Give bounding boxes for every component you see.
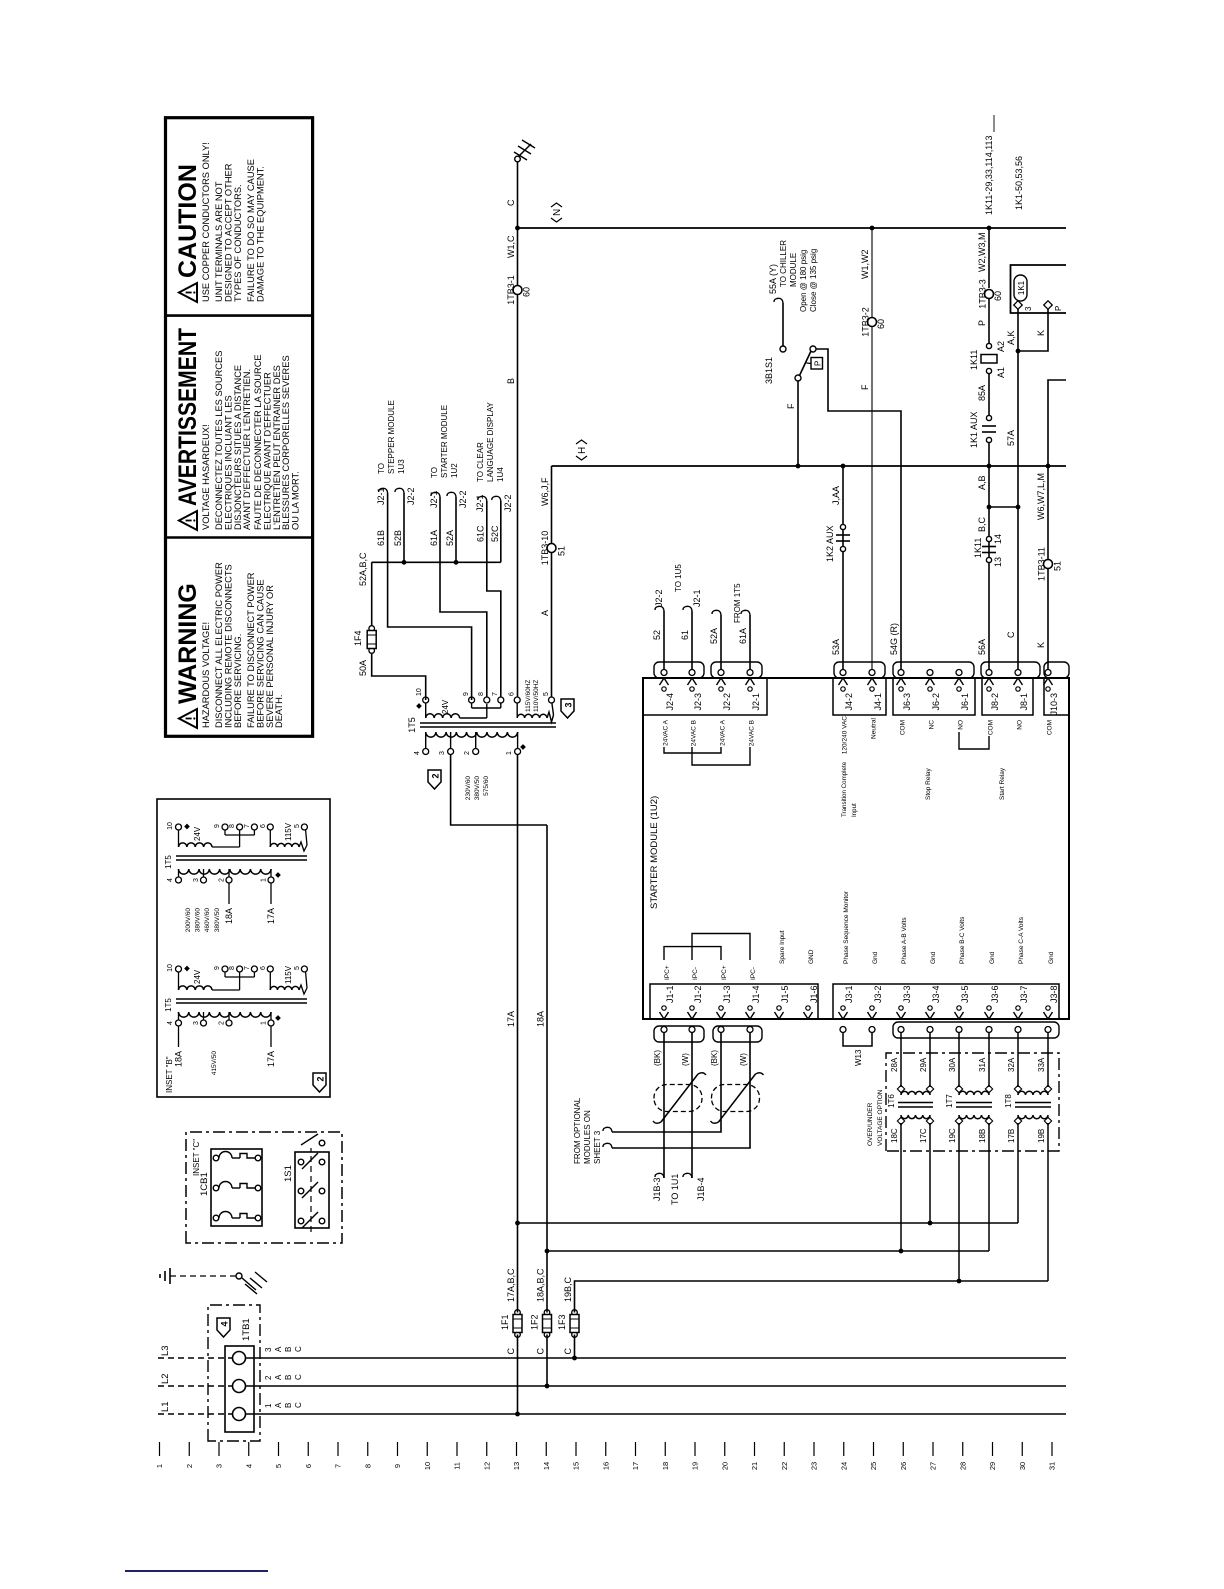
- junction A,K: [1016, 349, 1021, 354]
- svg-text:28: 28: [958, 1462, 967, 1470]
- svg-text:17A: 17A: [506, 1011, 516, 1027]
- label J2-1 dest: [692, 589, 702, 607]
- svg-text:FROM OPTIONAL: FROM OPTIONAL: [573, 1097, 582, 1164]
- wire 18A riser to terminal 3: [451, 755, 547, 826]
- svg-text:52A,B,C: 52A,B,C: [358, 552, 368, 586]
- transformer 1T7: [945, 1085, 993, 1124]
- label J2-2 for 52C: [503, 494, 513, 512]
- svg-text:52: 52: [652, 630, 662, 640]
- svg-text:J1-5: J1-5: [780, 985, 790, 1003]
- svg-text:FROM 1T5: FROM 1T5: [733, 583, 742, 623]
- label TO CHILLER MODULE: [779, 240, 798, 287]
- svg-text:P: P: [1054, 306, 1063, 311]
- 1T5 inset-50hz primary winding / terminals 4 3 2 1: [176, 1012, 275, 1026]
- hook 52B: [395, 488, 404, 493]
- wire 17B: [1007, 1123, 1018, 1223]
- junction 52A: [454, 560, 459, 565]
- svg-text:C: C: [506, 1348, 516, 1355]
- label L3: [160, 1345, 171, 1356]
- label 1K1 AUX: [969, 411, 979, 448]
- svg-text:Phase Sequence Monitor: Phase Sequence Monitor: [843, 890, 850, 964]
- svg-text:1K11: 1K11: [973, 538, 983, 558]
- chiller pin 3: [1014, 301, 1033, 311]
- label (W) 1: [681, 1053, 690, 1066]
- label C after 1F1: [506, 1348, 516, 1355]
- svg-text:IPC-: IPC-: [750, 967, 757, 980]
- svg-text:24VAC A: 24VAC A: [720, 719, 727, 746]
- svg-text:5: 5: [543, 692, 550, 696]
- svg-text:Open @ 180 psig: Open @ 180 psig: [799, 250, 808, 312]
- 1T5 inset-60hz 115V secondary winding / terminals 6 5: [267, 824, 307, 851]
- flag 2 inset B: [313, 1073, 326, 1092]
- terminal block 1TB1 enclosure dash-dot: [208, 1305, 260, 1441]
- connector block J6: [893, 678, 975, 715]
- junction 18C: [899, 1249, 904, 1254]
- connector pin J3-3: [897, 985, 913, 1032]
- svg-text:(BK): (BK): [653, 1050, 662, 1066]
- switch 1S1 pole 2: [298, 1182, 325, 1198]
- svg-text:J,AA: J,AA: [831, 486, 841, 505]
- destination TO STEPPER MODULE 1U3: [377, 400, 406, 474]
- svg-text:COM: COM: [900, 720, 907, 735]
- wire 52 net from terminal 10: [372, 562, 501, 700]
- svg-text:VOLTAGE HASARDEUX!: VOLTAGE HASARDEUX!: [201, 424, 211, 530]
- svg-text:1T8: 1T8: [1004, 1094, 1013, 1108]
- svg-text:J1B-3: J1B-3: [652, 1177, 662, 1201]
- flag 3: [561, 699, 574, 718]
- svg-text:13: 13: [993, 557, 1003, 567]
- svg-text:5: 5: [294, 824, 301, 828]
- wire 55A to chiller module: [782, 303, 784, 346]
- svg-text:1T5: 1T5: [407, 717, 417, 733]
- svg-text:1K11-29,33,114,113: 1K11-29,33,114,113: [984, 135, 994, 215]
- label FROM OPTIONAL MODULES ON SHEET 3: [573, 1097, 602, 1164]
- svg-text:51: 51: [557, 546, 567, 556]
- connector pin J3-2: [868, 985, 884, 1032]
- relay 1K1 reference bubble: [1014, 275, 1027, 301]
- earth ground symbol: [160, 1268, 170, 1284]
- svg-text:1: 1: [264, 1403, 273, 1408]
- transformer 1T8: [1004, 1085, 1052, 1124]
- svg-text:Phase B-C Volts: Phase B-C Volts: [959, 916, 966, 964]
- svg-text:K: K: [1036, 642, 1046, 648]
- label IPC- (J1-2): [692, 967, 699, 980]
- label F on neutral: [860, 384, 870, 390]
- svg-text:F: F: [786, 403, 796, 409]
- svg-text:120/240 VAC: 120/240 VAC: [842, 716, 849, 754]
- svg-text:STARTER MODULE: STARTER MODULE: [440, 405, 449, 478]
- svg-text:J4-2: J4-2: [844, 693, 854, 711]
- breaker 1CB1 pole 2: [213, 1182, 261, 1191]
- svg-text:24V: 24V: [193, 826, 202, 841]
- svg-text:AVERTISSEMENT: AVERTISSEMENT: [174, 328, 202, 506]
- svg-text:J1B-4: J1B-4: [696, 1177, 706, 1201]
- svg-text:TO: TO: [377, 463, 386, 474]
- label W1,C: [506, 235, 516, 258]
- wire 61A to terminal 8: [440, 497, 487, 697]
- inset wire 18A inset-50hz: [174, 1026, 184, 1067]
- label 52B: [393, 530, 403, 546]
- svg-text:1T6: 1T6: [887, 1094, 896, 1108]
- svg-text:MODULES ON: MODULES ON: [583, 1110, 592, 1164]
- label 85A: [977, 385, 987, 401]
- svg-text:WARNING: WARNING: [174, 583, 202, 704]
- hook from optional module 1: [603, 1127, 612, 1132]
- label INSET C: [192, 1139, 201, 1176]
- pressure switch 3B1S1: [780, 346, 823, 381]
- bus 2 A B C (L2): [246, 1385, 1067, 1387]
- chiller pin P: [1044, 301, 1063, 311]
- wire 18B: [978, 1123, 989, 1251]
- connector pin J2-4: [660, 670, 676, 711]
- transformer 1T5 core: [420, 723, 556, 727]
- wire B/C from terminal 6 to chassis ground: [517, 162, 519, 697]
- svg-text:(W): (W): [681, 1053, 690, 1066]
- svg-text:1K1 AUX: 1K1 AUX: [969, 411, 979, 448]
- svg-text:8: 8: [478, 692, 485, 696]
- hook from optional module 2: [603, 1143, 612, 1148]
- svg-text:Gnd: Gnd: [872, 951, 879, 964]
- current transformer CT1: [653, 1073, 706, 1124]
- svg-text:J2-1: J2-1: [751, 693, 761, 711]
- svg-text:3: 3: [564, 702, 574, 707]
- breaker 1CB1 pole 3: [213, 1212, 261, 1221]
- svg-text:1K1-50,53,56: 1K1-50,53,56: [1014, 156, 1024, 210]
- jumper W13 J3-1 to J3-2: [843, 1033, 872, 1047]
- wire 61 J2-3 to 1U5: [691, 611, 693, 670]
- connector shell J2-4/J2-3: [654, 662, 704, 678]
- svg-text:C: C: [294, 1402, 303, 1408]
- label 52A at J2-2: [709, 628, 719, 644]
- blue revision mark: [125, 1570, 268, 1572]
- svg-text:Phase C-A Volts: Phase C-A Volts: [1018, 916, 1025, 964]
- label Spare Input: [779, 930, 786, 964]
- connector block J8: [982, 678, 1033, 715]
- svg-text:J3-5: J3-5: [960, 985, 970, 1003]
- svg-text:J2-2: J2-2: [654, 589, 664, 607]
- svg-text:7: 7: [244, 824, 251, 828]
- wire 17A fuse to transformer terminal 1: [517, 755, 519, 1313]
- svg-text:115V/60HZ: 115V/60HZ: [525, 680, 532, 712]
- svg-text:6: 6: [260, 824, 267, 828]
- label A,K: [1006, 330, 1016, 345]
- 1T5 inset-60hz terminal numbers and polarity dots: [164, 822, 301, 882]
- wire 52B: [403, 493, 405, 562]
- wire 52A: [455, 497, 457, 562]
- connector pin J1-5: [775, 985, 791, 1019]
- svg-text:A: A: [540, 610, 550, 616]
- svg-text:8: 8: [229, 824, 236, 828]
- label B,C: [977, 516, 987, 532]
- chiller module outline: [1011, 265, 1067, 313]
- 1T5 inset-50hz 24V secondary winding / terminal 10: [176, 966, 240, 990]
- hook 61B: [379, 488, 388, 493]
- svg-text:22: 22: [780, 1462, 789, 1470]
- svg-text:DAMAGE TO THE EQUIPMENT.: DAMAGE TO THE EQUIPMENT.: [255, 166, 265, 302]
- label Start Relay: [999, 767, 1006, 800]
- label 55A (Y): [768, 264, 778, 294]
- svg-text:4: 4: [167, 878, 174, 882]
- label 61: [680, 630, 690, 640]
- svg-text:1S1: 1S1: [283, 1165, 294, 1182]
- svg-text:1T7: 1T7: [945, 1094, 954, 1108]
- label Phase C-A Volts: [1018, 916, 1025, 964]
- svg-text:2: 2: [316, 1076, 326, 1081]
- label 61B: [376, 530, 386, 546]
- svg-text:INSET "C": INSET "C": [192, 1139, 201, 1176]
- svg-text:50A: 50A: [358, 660, 368, 676]
- wire (W) J1-4: [612, 1033, 750, 1149]
- label C at J8-1: [1006, 631, 1016, 638]
- hook 61A: [431, 492, 440, 497]
- relay coil 1K11: [981, 343, 997, 373]
- branch 17 vertical: [518, 1222, 1019, 1224]
- svg-text:Close @ 135 psig: Close @ 135 psig: [809, 249, 818, 312]
- svg-text:F: F: [860, 384, 870, 390]
- bracket J1-1 to J1-3 (IPC+): [664, 947, 721, 960]
- label 53A: [831, 639, 841, 655]
- svg-text:27: 27: [929, 1462, 938, 1470]
- svg-text:54G (R): 54G (R): [889, 623, 899, 655]
- wire Neutral J4-1 to N rail: [871, 228, 873, 670]
- label 54G (R): [889, 623, 899, 655]
- svg-text:B: B: [284, 1375, 293, 1380]
- connector pin J3-5: [955, 985, 971, 1032]
- svg-text:J2-1: J2-1: [376, 487, 386, 505]
- svg-text:NO: NO: [958, 720, 965, 730]
- label Phase Sequence Monitor: [843, 890, 850, 964]
- wire 61C to terminal 7: [487, 501, 501, 697]
- svg-text:TO CLEAR: TO CLEAR: [476, 442, 485, 482]
- label Gnd (J3-4): [930, 951, 937, 964]
- svg-text:OU LA MORT.: OU LA MORT.: [291, 471, 301, 530]
- svg-text:4: 4: [414, 751, 421, 755]
- svg-text:J3-3: J3-3: [902, 985, 912, 1003]
- svg-text:B: B: [284, 1347, 293, 1352]
- junction coil rung at N: [987, 226, 992, 231]
- svg-text:61: 61: [680, 630, 690, 640]
- label Stop Relay: [925, 767, 932, 800]
- svg-text:J8-2: J8-2: [990, 693, 1000, 711]
- svg-text:STARTER MODULE (1U2): STARTER MODULE (1U2): [649, 796, 660, 909]
- wire K J10-3 to 1TB3-11 to H and beyond: [1048, 380, 1066, 670]
- 1TB1 terminal for L3: [233, 1352, 246, 1365]
- flag 4: [217, 1318, 230, 1337]
- label 52A,B,C: [358, 552, 368, 586]
- svg-text:5: 5: [294, 966, 301, 970]
- svg-text:J2-2: J2-2: [503, 494, 513, 512]
- label (W) 2: [739, 1053, 748, 1066]
- wire 52C: [500, 501, 502, 562]
- svg-text:Phase A-B Volts: Phase A-B Volts: [901, 917, 908, 964]
- svg-text:IPC+: IPC+: [664, 965, 671, 980]
- svg-text:W6,W7,L,M: W6,W7,L,M: [1036, 473, 1046, 520]
- svg-text:24VAC B: 24VAC B: [749, 720, 756, 746]
- label L2: [160, 1373, 171, 1384]
- svg-text:19C: 19C: [948, 1128, 957, 1143]
- svg-text:COM: COM: [988, 720, 995, 735]
- wire 56A J8-2 to H: [988, 466, 990, 670]
- hook 52A from 1T5: [712, 610, 721, 615]
- svg-text:1: 1: [261, 878, 268, 882]
- fuse 1F4: [353, 626, 376, 654]
- svg-text:W1,C: W1,C: [506, 235, 516, 258]
- label (BK) 2: [710, 1050, 719, 1066]
- connector pin J6-3: [897, 670, 913, 711]
- svg-text:18A: 18A: [174, 1051, 184, 1067]
- svg-text:1K2 AUX: 1K2 AUX: [825, 525, 835, 562]
- label Gnd (J3-8): [1048, 951, 1055, 964]
- connector block J4: [833, 678, 886, 715]
- svg-text:GND: GND: [808, 949, 815, 964]
- label FROM 1T5: [733, 583, 742, 623]
- svg-text:18A: 18A: [224, 908, 234, 924]
- label A1: [996, 367, 1006, 378]
- label IPC+ (J1-1): [664, 965, 671, 980]
- svg-text:W13: W13: [854, 1049, 863, 1066]
- svg-text:3: 3: [193, 1021, 200, 1025]
- svg-text:1TB1: 1TB1: [241, 1318, 252, 1341]
- svg-text:9: 9: [393, 1464, 402, 1468]
- wire C J8-1 to chiller pin 3: [1017, 351, 1019, 670]
- svg-text:18A: 18A: [536, 1011, 546, 1027]
- svg-text:200V/60: 200V/60: [185, 908, 192, 933]
- svg-text:MODULE: MODULE: [789, 253, 798, 287]
- label (BK) 1: [653, 1050, 662, 1066]
- contact 1K2 AUX: [836, 524, 850, 551]
- svg-text:28A: 28A: [890, 1057, 899, 1072]
- connector block J3: [833, 984, 1059, 1019]
- bracket J2-3 to J2-1 (24VAC B): [692, 747, 750, 765]
- primary voltage ratings: [465, 776, 490, 801]
- svg-text:(BK): (BK): [710, 1050, 719, 1066]
- svg-text:J6-2: J6-2: [931, 693, 941, 711]
- svg-text:30: 30: [1018, 1462, 1027, 1470]
- label IPC+ (J1-3): [721, 965, 728, 980]
- svg-text:29: 29: [988, 1462, 997, 1470]
- wire 54G J6-3 to pressure switch: [816, 349, 901, 670]
- label 61A at J2-1: [738, 628, 748, 644]
- svg-text:N: N: [552, 209, 563, 216]
- svg-text:B,C: B,C: [977, 516, 987, 532]
- svg-text:VOLTAGE OPTION: VOLTAGE OPTION: [877, 1089, 884, 1146]
- svg-text:H: H: [577, 447, 588, 454]
- svg-text:7: 7: [334, 1464, 343, 1468]
- svg-text:1U3: 1U3: [397, 459, 406, 474]
- svg-text:1: 1: [155, 1464, 164, 1468]
- label Gnd (J3-6): [989, 951, 996, 964]
- svg-text:19B,C: 19B,C: [563, 1276, 573, 1302]
- svg-text:(W): (W): [739, 1053, 748, 1066]
- cross reference 1K11 contacts: [984, 115, 994, 215]
- svg-text:33A: 33A: [1037, 1057, 1046, 1072]
- terminal block 1TB1 body: [225, 1346, 254, 1432]
- svg-text:1K1: 1K1: [1017, 280, 1026, 295]
- svg-text:2: 2: [185, 1464, 194, 1468]
- label (H): [576, 440, 588, 460]
- label Phase B-C Volts: [959, 916, 966, 964]
- svg-text:19: 19: [691, 1462, 700, 1470]
- svg-text:J1-2: J1-2: [693, 985, 703, 1003]
- label Neutral: [871, 717, 878, 739]
- svg-text:TO CHILLER: TO CHILLER: [779, 240, 788, 287]
- connector pin J4-2: [839, 670, 855, 711]
- label J,AA: [831, 486, 841, 505]
- label J2-2 for 52B: [406, 487, 416, 505]
- svg-text:17A: 17A: [266, 908, 276, 924]
- svg-text:2: 2: [219, 878, 226, 882]
- connector block J1: [650, 984, 818, 1019]
- svg-text:3: 3: [1024, 306, 1033, 311]
- current transformer CT2: [711, 1073, 764, 1124]
- chiller module pin 3 wire: [1017, 309, 1019, 351]
- terminal 1TB3-10: [540, 531, 567, 566]
- label 24VAC B (J2-3): [691, 720, 698, 746]
- connector shell J10: [1044, 662, 1069, 678]
- destination TO STARTER MODULE 1U2: [430, 405, 459, 478]
- hook 61C: [478, 496, 487, 501]
- label J2-2 for 52A: [458, 490, 468, 508]
- svg-text:1F3: 1F3: [557, 1314, 567, 1330]
- breaker 1CB1 pole 1: [213, 1152, 261, 1161]
- svg-text:115V: 115V: [284, 822, 293, 841]
- wire 61A J2-1 from 1T5: [749, 615, 751, 670]
- bracket J2-4 to J2-2 (24VAC A): [664, 747, 721, 753]
- fuse 1F1: [500, 1310, 522, 1338]
- label 61C: [476, 525, 486, 542]
- label Gnd (J3-2): [872, 951, 879, 964]
- inset wire 17A inset-50hz: [266, 1026, 276, 1067]
- svg-text:J2-2: J2-2: [406, 487, 416, 505]
- svg-text:16: 16: [601, 1462, 610, 1470]
- svg-text:C: C: [506, 199, 516, 206]
- svg-text:L3: L3: [160, 1345, 171, 1356]
- label 17A: [506, 1011, 516, 1027]
- label 24VAC A (J2-2): [720, 719, 727, 746]
- chassis ground symbol: [236, 1272, 267, 1294]
- connector pin J3-4: [926, 985, 942, 1032]
- svg-text:61A: 61A: [429, 530, 439, 546]
- svg-text:51: 51: [1053, 561, 1063, 571]
- fuse 1F2: [530, 1310, 552, 1338]
- wire L3 dashed entry: [158, 1357, 232, 1359]
- label C on neutral entry: [506, 199, 516, 206]
- svg-text:2: 2: [219, 1021, 226, 1025]
- svg-text:J1-1: J1-1: [665, 985, 675, 1003]
- connector pin J6-1: [955, 670, 971, 711]
- junction N top: [515, 226, 520, 231]
- svg-text:18C: 18C: [890, 1128, 899, 1143]
- svg-text:110V/50HZ: 110V/50HZ: [533, 680, 540, 712]
- label K wire: [1036, 642, 1046, 648]
- svg-text:J2-3: J2-3: [693, 693, 703, 711]
- label J1B-4: [696, 1177, 706, 1201]
- wire 30A: [948, 1033, 959, 1088]
- svg-text:1TB3-2: 1TB3-2: [861, 307, 871, 337]
- svg-text:CAUTION: CAUTION: [174, 164, 202, 278]
- svg-text:1F4: 1F4: [353, 630, 363, 646]
- svg-text:230V/60: 230V/60: [465, 776, 472, 801]
- INSET B border: [157, 799, 330, 1097]
- wire (W) J1-2: [691, 1033, 693, 1179]
- label TO 1U1: [670, 1174, 680, 1205]
- svg-text:10: 10: [167, 964, 174, 972]
- hook 61A from 1T5: [741, 610, 750, 615]
- svg-text:J6-1: J6-1: [960, 693, 970, 711]
- wire 31A: [978, 1033, 989, 1088]
- connector pin J8-1: [1014, 670, 1030, 711]
- label STARTER MODULE (1U2): [649, 796, 660, 909]
